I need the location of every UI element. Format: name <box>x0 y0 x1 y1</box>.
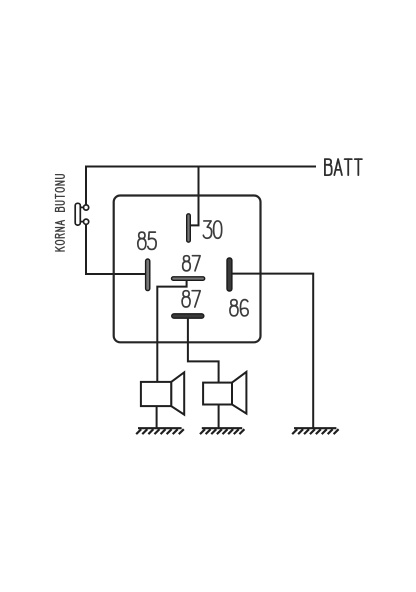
relay pin 85 terminal <box>146 259 150 291</box>
relay pin 87 (first) terminal <box>172 277 205 281</box>
ground (pin 86 circuit) <box>294 427 336 429</box>
horn H2 <box>203 372 246 414</box>
switch S1 horn button (KORNA BUTONU) <box>75 203 89 225</box>
wire: horn H2 to ground <box>218 405 220 429</box>
wire: pin 87 (second) to horn H2 <box>188 318 219 384</box>
wire: drop from BATT line to horn button <box>85 166 87 206</box>
pin label 87 (first) <box>184 256 190 262</box>
pin label 30 <box>203 221 211 238</box>
horn H1 <box>141 372 184 414</box>
pin label 85 <box>139 232 145 238</box>
wire: horn button to relay pin 85 <box>86 224 146 274</box>
wire: horn H1 to ground <box>156 406 158 428</box>
relay pin 30 terminal <box>187 214 191 242</box>
pin label 86 <box>231 300 237 306</box>
wire: BATT junction down to pin 30 <box>190 166 198 226</box>
wire: BATT supply line <box>86 166 316 168</box>
ground (horn H2) <box>202 427 242 429</box>
relay pin 87 (second) terminal <box>172 314 204 318</box>
relay K1 body <box>114 196 261 343</box>
wire: pin 87 (first) to horn H1 <box>157 280 186 383</box>
pin label 87 (second) <box>183 291 189 297</box>
relay pin 86 terminal <box>227 258 232 291</box>
label KORNA BUTONU <box>55 175 64 251</box>
BATT net label <box>324 159 326 175</box>
ground (horn H1) <box>138 427 182 429</box>
wire: pin 86 to ground <box>232 274 314 428</box>
